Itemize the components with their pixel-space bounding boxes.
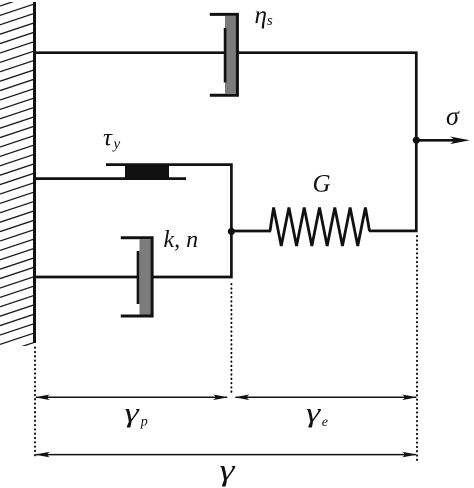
arrow sigma (applied stress) xyxy=(416,139,455,142)
dashpot U2 k,n: piston fill xyxy=(140,240,151,315)
node A junction dot xyxy=(228,228,235,235)
dashpot U2 k,n: cylinder cup xyxy=(121,238,152,316)
svg-text:γ: γ xyxy=(220,452,236,487)
spring G xyxy=(270,208,370,247)
node B junction dot (sigma node) xyxy=(413,137,420,144)
svg-text:k, n: k, n xyxy=(164,227,199,253)
dashpot U1 eta_s: cylinder cup xyxy=(210,14,238,95)
dashpot U1 eta_s: piston plate xyxy=(224,28,227,83)
wire: wall to dashpot k,n (bottom branch) xyxy=(34,276,139,279)
wire: dashpot k,n to node A riser xyxy=(152,230,231,277)
wire: wall to dashpot eta_s piston rod (top branch) xyxy=(34,51,226,54)
slider tau_y: friction pad xyxy=(125,166,169,178)
dimension gamma_e: line with outward arrowheads xyxy=(236,396,417,398)
dimension gamma: full-width line with outward arrowheads xyxy=(36,454,416,456)
dashpot U1 eta_s: piston fill xyxy=(225,16,237,94)
dimension gamma_p: line with outward arrowheads xyxy=(36,396,227,398)
wire: node A to spring xyxy=(231,230,271,233)
slider tau_y: bottom plate wire from wall xyxy=(34,177,186,180)
svg-text:G: G xyxy=(313,171,331,198)
wall (fixed support, hatched) xyxy=(0,0,34,354)
wall face line xyxy=(33,2,36,343)
wire: dashpot eta_s to right rail, down right rail, and spring right end xyxy=(238,53,417,231)
dotted extension line: left (from wall bottom) xyxy=(34,348,36,460)
dotted extension line: right (sigma rail projection) xyxy=(416,236,418,462)
svg-text:σ: σ xyxy=(446,102,460,131)
dotted extension line: middle (node A projection) xyxy=(230,284,232,395)
dashpot U2 k,n: piston plate xyxy=(137,251,140,304)
slider tau_y: top plate and wire down to node A xyxy=(106,165,231,232)
